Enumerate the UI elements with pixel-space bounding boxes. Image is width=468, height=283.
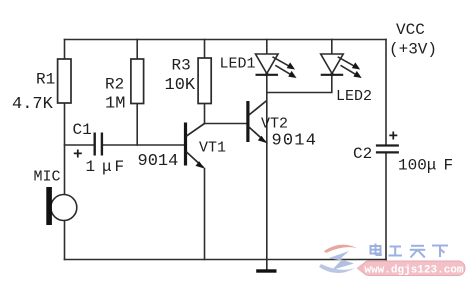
svg-text:VT2: VT2 (261, 116, 288, 133)
wire LED2 branch top (331, 40, 333, 55)
resistor R2 (131, 59, 144, 104)
transistor VT2 (246, 101, 266, 144)
wire LED1 branch top (266, 40, 268, 55)
svg-text:1: 1 (86, 158, 96, 176)
svg-text:www.dgjs123.com: www.dgjs123.com (364, 264, 463, 276)
svg-text:VT1: VT1 (199, 140, 226, 157)
svg-text:R1: R1 (36, 71, 55, 89)
svg-text:VCC: VCC (396, 21, 425, 39)
wire right branch (385, 40, 387, 146)
svg-text:9014: 9014 (272, 132, 318, 151)
transistor VT1 (184, 123, 205, 169)
resistor R3 (198, 58, 211, 104)
wire C1 to VT1 base (102, 144, 185, 146)
wire LED1 cathode down to VT2 collector node (266, 75, 268, 143)
wire VT1 collector to VT2 base (205, 123, 247, 125)
svg-text:C2: C2 (353, 145, 372, 163)
wire right branch lower (385, 153, 387, 260)
capacitor C2 (376, 146, 399, 153)
resistor R1 (58, 59, 71, 103)
wire VT1 emitter down (204, 169, 206, 260)
watermark text dian gong tian xia (371, 244, 449, 258)
wire node base VT1 left segment (65, 144, 95, 146)
LED1 (256, 54, 297, 78)
svg-text:LED2: LED2 (336, 88, 372, 105)
svg-text:F: F (444, 157, 454, 175)
wire bottom rail (65, 259, 387, 261)
svg-text:F: F (115, 158, 125, 176)
svg-text:10K: 10K (165, 76, 196, 95)
wire R2 branch (136, 40, 138, 146)
svg-text:9014: 9014 (138, 152, 179, 171)
svg-text:1M: 1M (105, 95, 125, 114)
svg-text:+: + (73, 146, 83, 164)
svg-text:C1: C1 (73, 121, 92, 139)
svg-text:LED1: LED1 (220, 56, 256, 73)
svg-text:+: + (389, 128, 399, 146)
microphone MIC (46, 187, 77, 225)
watermark banner www.dgjs123.com (357, 261, 466, 276)
ground (256, 269, 276, 272)
wire left branch (64, 40, 66, 260)
wire R3 / VT1 collector branch (204, 40, 206, 124)
capacitor C1 (95, 133, 102, 156)
svg-text:MIC: MIC (34, 169, 61, 186)
LED2 (321, 54, 362, 78)
svg-text:100μ: 100μ (398, 157, 436, 175)
watermark logo (319, 245, 357, 273)
wire VT2 emitter down to ground (266, 143, 268, 270)
wire top rail (65, 39, 387, 41)
wire LED2 cathode down and left (267, 75, 332, 93)
svg-text:(+3V): (+3V) (389, 41, 437, 59)
svg-text:R2: R2 (105, 76, 124, 94)
svg-text:4.7K: 4.7K (12, 95, 54, 114)
svg-text:R3: R3 (172, 57, 191, 75)
svg-text:μ: μ (102, 158, 112, 176)
